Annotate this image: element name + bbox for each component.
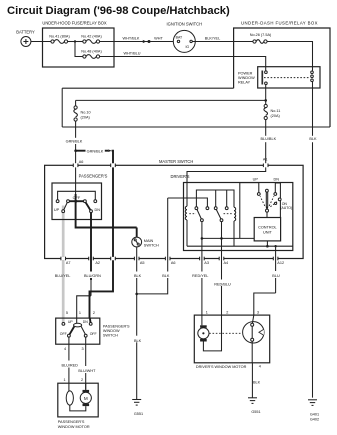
relay coil W1 (up) [185,206,187,220]
wire breaker to motor bottom [70,405,86,411]
wire A2 from DN contact down [90,213,92,280]
fuse No.26 (7.5A) [250,33,272,43]
driver auto switch arm [265,192,267,207]
svg-text:IG: IG [185,45,189,49]
wire A6 BLK from driver contact rail [138,198,168,294]
wire cross line y246 to A12 [187,245,293,247]
connector breaks on master switch bottom edge [61,257,278,261]
driver's window motor [194,315,269,369]
svg-text:PASSENGER'S: PASSENGER'S [58,420,85,424]
wire BLU/RED pin4 to motor [61,337,78,391]
wire GRN/BLK jog to pass switch pin2 [90,260,114,318]
svg-text:RELAY: RELAY [238,81,251,85]
wire BLK/YEL ignition to fuse26 [192,41,253,43]
svg-text:RED/BLU: RED/BLU [214,283,231,287]
fuse No.48 (40A) [81,49,102,58]
svg-text:CONTROL: CONTROL [258,226,277,230]
svg-text:BATTERY: BATTERY [16,30,35,35]
svg-text:BLK: BLK [134,274,142,278]
svg-text:BLK: BLK [162,274,170,278]
svg-text:MAIN: MAIN [144,239,154,243]
svg-text:WHT: WHT [154,36,163,40]
circuit breaker in pass motor [66,391,73,405]
svg-text:No.10: No.10 [81,111,91,115]
wire GRN/BLK through box down [112,167,114,257]
svg-text:BLK: BLK [253,381,261,385]
svg-text:GRN/BLK: GRN/BLK [66,140,83,144]
passenger switch arms [64,202,68,209]
wire relay coil bottom to junction [265,85,267,105]
svg-text:UP: UP [68,320,74,324]
svg-text:BLK: BLK [309,137,317,141]
wire BLU/BLK fuse11 down to A1 [260,120,276,164]
dashed link motor to position switch [209,332,242,334]
svg-text:No.26 (7.5A): No.26 (7.5A) [250,33,272,37]
svg-text:BLK/YEL: BLK/YEL [205,36,220,40]
wire A2 BLU/GRN jog to pass switch pin1 [77,296,91,318]
svg-text:1: 1 [79,311,81,315]
wire BLU/WHT pin3 to motor [78,337,96,390]
wire coil1 bottom down [186,220,188,246]
passenger's window switch [56,318,130,344]
connector arrow and dot on WHT/BLK wire [143,40,147,43]
svg-text:No.11: No.11 [271,109,281,113]
fuse No.11 (20A) [264,104,281,119]
fuse No.10 (20A) [74,106,91,121]
svg-text:UNDER-DASH FUSE/RELAY BOX: UNDER-DASH FUSE/RELAY BOX [241,20,318,25]
svg-text:WHT/BLK: WHT/BLK [123,36,140,40]
wire junction down to fuse48 row [75,42,83,57]
driver auto switch DN bracket [275,183,280,218]
wire left bus vertical [61,88,63,127]
svg-text:4: 4 [259,365,261,369]
svg-text:RED/YEL: RED/YEL [192,274,208,278]
wire A6 feed into master switch [75,151,77,164]
ground G551 driver motor [248,398,261,414]
ground G551 master switch [132,400,143,417]
svg-text:A1: A1 [263,158,268,162]
svg-text:G401: G401 [310,412,319,416]
svg-text:A12: A12 [277,261,284,265]
svg-text:UP: UP [54,208,60,212]
pass switch internals [60,318,97,337]
battery [16,30,35,47]
svg-text:1: 1 [64,378,66,382]
mechanical links [189,213,196,215]
svg-text:DN: DN [95,208,101,212]
motor M driver [198,325,209,341]
wire c2 feed [168,198,208,207]
svg-text:PASSENGER'S: PASSENGER'S [79,174,108,179]
driver relay arms [197,210,201,219]
wire A1 BLU/BLK feed to coil1 [187,167,266,206]
svg-text:WINDOW: WINDOW [103,329,120,333]
wire GRN/BLK fuse10 down to junction [75,121,77,138]
connector breaks on master switch top edge [73,164,268,168]
wire corner into fuse10 [75,100,77,106]
passenger's window motor [58,383,98,429]
svg-text:A3: A3 [204,261,209,265]
relay coil W2 (down) [234,207,236,221]
control unit [254,218,280,241]
svg-text:A6: A6 [79,160,84,164]
svg-text:2: 2 [93,311,95,315]
main switch [132,228,159,248]
wire control unit bottom stub [266,241,268,246]
svg-text:Circuit Diagram ('96-98 Coupe/: Circuit Diagram ('96-98 Coupe/Hatchback) [7,5,230,17]
svg-text:UP: UP [253,178,259,182]
wire bus y=100 to fuse10 [76,99,266,101]
svg-text:3: 3 [257,310,259,314]
svg-text:WINDOW: WINDOW [238,76,255,80]
svg-text:(20A): (20A) [271,114,281,118]
svg-text:No.41 (80A): No.41 (80A) [49,34,70,38]
under-dash fuse/relay box [234,20,330,127]
wire A6 feed to passenger switch pole [75,167,77,194]
motor M pass [80,390,91,406]
junction GRN/BLK split [74,149,77,152]
driver auto switch UP bracket [240,183,259,239]
svg-text:M: M [84,396,88,401]
wire fuse41 to junction [68,41,83,43]
driver's sub-box in master switch [171,174,293,250]
svg-text:2: 2 [226,310,228,314]
svg-text:OFF: OFF [90,332,97,336]
wire fuse26 to relay contact [267,42,312,71]
passenger switch OFF bracket [58,191,96,199]
svg-text:G551: G551 [134,412,143,416]
svg-text:BLU/GRN: BLU/GRN [84,274,101,278]
svg-text:DN: DN [83,320,89,324]
wire pin1 into motor [201,315,203,325]
wire pivot to control unit [266,212,268,217]
wire pin2 to motor bottom [203,315,221,351]
svg-text:OFF: OFF [60,332,67,336]
passenger switch contacts [56,200,59,203]
wire battery to under-hood box [31,41,51,43]
svg-text:A6: A6 [171,261,176,265]
wire A12 BLU down to driver motor pin3 [254,246,280,315]
svg-text:DRIVER'S WINDOW MOTOR: DRIVER'S WINDOW MOTOR [196,365,247,369]
driver auto switch contacts [257,193,260,196]
svg-text:2: 2 [81,378,83,382]
wire WHT/BLU row to relay [100,57,266,71]
under-hood fuse/relay box [42,20,114,67]
svg-text:G402: G402 [310,418,319,422]
svg-text:No.42 (40A): No.42 (40A) [81,34,102,38]
svg-text:A7: A7 [66,261,71,265]
ignition switch [167,21,203,52]
svg-text:BLU/RED: BLU/RED [61,363,78,367]
svg-text:MASTER SWITCH: MASTER SWITCH [159,159,193,164]
svg-text:SWITCH: SWITCH [103,334,118,338]
wire A4 down [221,222,223,316]
wire A3 down [201,222,203,316]
svg-text:OFF: OFF [73,196,81,200]
svg-text:1: 1 [206,310,208,314]
master switch box [45,159,304,259]
wire pin4 BLK to ground [252,341,260,397]
svg-text:WINDOW MOTOR: WINDOW MOTOR [58,425,90,429]
svg-text:WHT/BLU: WHT/BLU [123,51,140,55]
svg-text:5: 5 [66,311,68,315]
junction under-hood split [74,40,76,42]
svg-text:BLU/YEL: BLU/YEL [55,274,71,278]
passenger's sub-box in master switch [52,174,108,220]
svg-text:BLU/BLK: BLU/BLK [260,137,276,141]
junction relay output [264,99,267,102]
driver relay contacts [195,207,198,210]
svg-text:BLU/WHT: BLU/WHT [78,369,96,373]
svg-text:PASSENGER'S: PASSENGER'S [103,325,130,329]
wire pin2 to motor top [85,383,87,390]
svg-text:A5: A5 [140,261,145,265]
wire GRN/BLK branch right [76,149,113,163]
svg-text:DN: DN [274,178,280,182]
svg-text:3: 3 [82,347,84,351]
svg-text:BLK: BLK [134,339,142,343]
svg-text:SWITCH: SWITCH [144,243,159,247]
junction GRN/BLK on rail [112,226,115,229]
svg-text:A2: A2 [95,261,100,265]
svg-text:A4: A4 [224,261,229,265]
svg-text:(20A): (20A) [81,116,91,120]
dashed throw positions [260,196,265,206]
fuse No.42 (40A) [81,34,102,43]
ground G401 G402 [308,400,319,422]
wire pin3 into position switch [252,315,253,323]
svg-text:UNIT: UNIT [263,231,273,235]
highlighted gray wire A7 BLU/YEL path [62,206,65,323]
svg-text:G551: G551 [251,410,260,414]
power window relay [238,67,320,88]
wire BLK labels on ground run [133,336,142,343]
fuse No.41 (80A) [49,34,70,43]
wire BLK relay to ground G401 [309,82,317,398]
wire bus y=127 [62,126,330,128]
wire A5 main switch to ground run [136,247,138,400]
svg-text:GRN/BLK: GRN/BLK [87,149,104,153]
svg-text:(AUTO): (AUTO) [280,206,292,210]
wire bus y=88 [62,87,233,89]
wire pole down to main switch rail [76,201,137,227]
position switch circle [243,322,264,343]
driver contact rail H1 [196,190,234,207]
svg-text:No.48 (40A): No.48 (40A) [81,49,102,53]
svg-text:POWER: POWER [238,72,253,76]
svg-text:BLU: BLU [272,274,280,278]
svg-text:4: 4 [64,347,66,351]
svg-text:BAT: BAT [176,35,183,39]
passenger switch lower contacts [62,210,65,213]
tie line to control unit [202,237,254,239]
wire WHT/BLK row to ignition switch [100,41,178,43]
svg-text:IGNITION SWITCH: IGNITION SWITCH [167,21,203,26]
svg-text:UNDER-HOOD FUSE/RELAY BOX: UNDER-HOOD FUSE/RELAY BOX [42,20,106,25]
